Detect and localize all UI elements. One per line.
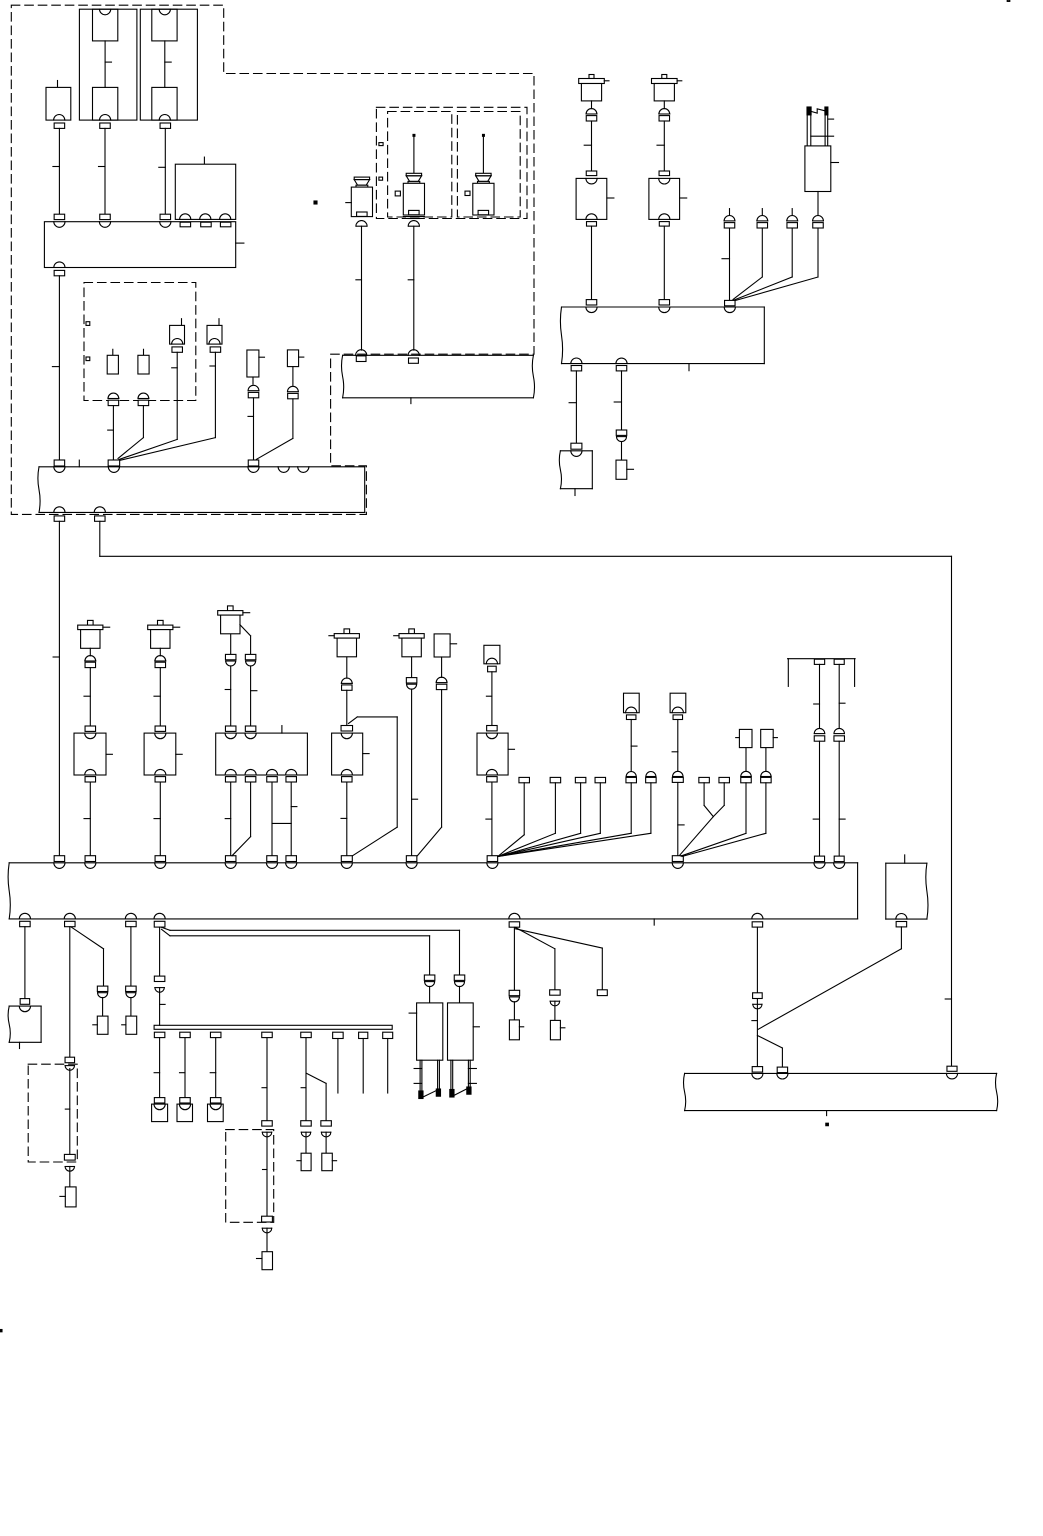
wire D bbox=[678, 783, 684, 856]
p3 wire bbox=[130, 927, 132, 987]
fuse/relay strip box B2 bbox=[38, 460, 365, 512]
SN5 stub+pair bbox=[406, 657, 417, 689]
sensor SN2 bbox=[148, 620, 180, 648]
ignition coil IC2 bbox=[652, 75, 682, 109]
resistor RC16 bbox=[736, 729, 752, 747]
ignition coil IC2 wire 2 bbox=[663, 226, 665, 300]
component CB above fan2 bbox=[670, 693, 686, 771]
p5 wire2 bbox=[513, 1002, 515, 1020]
t5 branch bbox=[307, 1073, 327, 1120]
ignition coil IC1 bbox=[579, 75, 609, 109]
p6 branch bbox=[757, 1036, 782, 1068]
injector INJ2 bbox=[403, 134, 424, 215]
ignition coil IC2 connector pair bbox=[659, 109, 670, 121]
float connector F1 bbox=[724, 209, 735, 228]
SN2 stub+pair bbox=[155, 648, 166, 667]
relay module M2 (dual element) bbox=[140, 9, 197, 120]
pigtail c8 bbox=[498, 777, 530, 856]
dashed injector box 2 bbox=[457, 112, 520, 218]
bracket float b bbox=[834, 728, 845, 741]
wire W8 bbox=[120, 352, 215, 460]
box P1B bbox=[8, 1006, 41, 1048]
SN1-B bottom bbox=[85, 769, 96, 782]
switch S1 bbox=[107, 349, 118, 374]
branch B2 wire bbox=[162, 929, 430, 975]
E3 connector bbox=[896, 922, 907, 927]
resistor RT5 bbox=[297, 1153, 311, 1171]
ECU bottom conn p5 bbox=[509, 922, 520, 927]
terminal mark f bbox=[465, 191, 470, 195]
bracket float a bbox=[814, 728, 825, 741]
wire W11 main feed down bbox=[53, 521, 59, 856]
p5d1 wire bbox=[554, 1001, 556, 1020]
SN3-B conn a bbox=[267, 777, 278, 782]
connector below J1 bbox=[54, 270, 65, 275]
t5 wire2 bbox=[305, 1132, 307, 1153]
p1 wire bbox=[24, 927, 26, 999]
C7 wire bbox=[486, 672, 492, 726]
bracket wire b bbox=[839, 664, 845, 727]
box SN3-B bbox=[216, 726, 308, 775]
p1 connector bbox=[20, 999, 30, 1005]
dashed box DB2 bbox=[226, 1130, 274, 1223]
p4 wire bbox=[159, 927, 161, 976]
connector W15 bbox=[571, 443, 582, 449]
p2b connector pair bbox=[97, 986, 108, 998]
dashed sub-harness boundary bbox=[84, 283, 196, 401]
SN3 tie bbox=[272, 822, 291, 824]
ignition coil IC2 wire bbox=[657, 121, 664, 171]
connector below B2 b bbox=[95, 516, 106, 521]
pigtail c11 bbox=[498, 777, 606, 856]
dashed box DB1 bbox=[28, 1064, 77, 1162]
battery BAT bbox=[805, 107, 839, 215]
wire W4 long feed bbox=[52, 276, 59, 460]
switch S4 bbox=[207, 319, 222, 344]
node dot g bbox=[314, 201, 317, 204]
t2 connector bbox=[180, 1098, 191, 1103]
resistor RT5B bbox=[322, 1153, 337, 1171]
dashed injector box 1 bbox=[388, 112, 452, 218]
pigtail c16 bbox=[681, 771, 751, 856]
bus tap t7 bbox=[359, 1032, 368, 1093]
wire W1 bbox=[53, 128, 60, 214]
connector pair S6 bbox=[288, 386, 299, 398]
box B4 bbox=[559, 451, 592, 496]
wire F4 bbox=[735, 228, 818, 301]
wire F1 bbox=[722, 228, 730, 300]
component C6 bbox=[434, 634, 457, 657]
component U3 bbox=[46, 81, 71, 121]
branch B1 wire bbox=[162, 927, 460, 975]
SN4 wire2 bbox=[341, 782, 347, 856]
wire W13 INJ1 bbox=[356, 226, 362, 350]
shielded module TPA bbox=[409, 1003, 443, 1099]
TP-A wire bbox=[429, 986, 431, 1003]
ignition coil IC1 connector pair bbox=[586, 109, 597, 121]
connector into J1 pin1 bbox=[54, 214, 65, 219]
SN4-B bottom bbox=[341, 769, 352, 782]
box T3B bbox=[208, 1104, 224, 1122]
dashed harness boundary (engine compartment) bbox=[11, 5, 534, 514]
SN3 connector R bbox=[245, 726, 256, 731]
injector driver box B3 bbox=[342, 350, 535, 404]
pigtail c10 bbox=[498, 777, 586, 856]
p2b wire bbox=[102, 998, 104, 1017]
connector pair S1 bbox=[108, 393, 119, 406]
bracket conn b bbox=[834, 659, 844, 664]
connector E2 b1 bbox=[571, 366, 582, 371]
connector below M1 bbox=[100, 123, 111, 128]
ECU bottom conn p3 bbox=[126, 921, 136, 926]
bracket wire a2 bbox=[813, 741, 819, 856]
main ECU box E1 bbox=[8, 863, 858, 925]
connector pair S2 bbox=[138, 393, 149, 406]
ignition coil IC2 connector 3 bbox=[659, 222, 669, 227]
p5 fan diagonal1 bbox=[516, 928, 555, 990]
switch S2 bbox=[138, 349, 149, 374]
TP-B connector pair bbox=[454, 975, 465, 987]
component above c17 bbox=[765, 748, 767, 772]
SN1 ECU connector bbox=[85, 856, 96, 862]
SN3 connector L bbox=[225, 726, 236, 731]
p6b connector bottom bbox=[777, 1067, 787, 1073]
connector E2 t3 bbox=[725, 300, 736, 305]
ECU bottom conn p2 bbox=[65, 921, 76, 926]
p5 fan diagonal2 bbox=[516, 929, 603, 990]
p2 connector2 bbox=[64, 1154, 75, 1171]
arc below INJ2 bbox=[408, 221, 419, 227]
connector below B2 a bbox=[54, 516, 65, 521]
t4 wire3 bbox=[266, 1228, 268, 1252]
SN3-B conn b bbox=[286, 777, 297, 782]
wire W16 bbox=[614, 371, 621, 430]
SN1 wire bbox=[84, 668, 90, 727]
SN3 ECU connector b bbox=[286, 856, 297, 862]
p2 branch diagonal bbox=[71, 927, 104, 986]
bracket ECU conn b bbox=[834, 856, 844, 862]
t5b connector pair bbox=[321, 1121, 332, 1137]
wire W10 bbox=[257, 399, 293, 459]
connector into J1 pin2 bbox=[100, 214, 111, 219]
sensor SN1 bbox=[78, 620, 110, 648]
SN4 stub+pair bbox=[341, 657, 352, 690]
p3 connector pair bbox=[126, 986, 136, 998]
pigtail c15 bbox=[713, 777, 729, 816]
C7 connector bbox=[488, 666, 497, 672]
bracket ECU conn a bbox=[814, 856, 824, 862]
SN3-B conn L bbox=[225, 777, 236, 782]
Y-wire c1415 bbox=[680, 817, 714, 856]
module U4 above junction box bbox=[175, 157, 235, 219]
p4 wire2 bbox=[160, 988, 166, 1026]
injector INJ1 bbox=[351, 177, 372, 217]
E3 diagonal wire bbox=[758, 927, 901, 1029]
t1 connector bbox=[154, 1098, 165, 1103]
ignition coil IC1 wire 2 bbox=[591, 226, 593, 300]
SN2 wire bbox=[154, 668, 160, 727]
connector E2 t2 bbox=[659, 300, 670, 305]
p5d1 connector bbox=[550, 990, 561, 1006]
bracket conn a bbox=[814, 659, 824, 664]
TP-A connector pair bbox=[424, 975, 435, 987]
ECU top conn W11 bbox=[54, 856, 65, 862]
wire F3 bbox=[734, 228, 792, 300]
SN1 stub+pair bbox=[85, 648, 96, 667]
SN4 branch bbox=[349, 717, 398, 856]
connector pair D bbox=[672, 771, 683, 782]
connector B2 pin1 bbox=[54, 460, 65, 466]
ECU connector box E2 bbox=[560, 307, 764, 371]
tick INJ1 bbox=[346, 202, 352, 204]
switch S3 bbox=[170, 319, 185, 344]
float connector F2 bbox=[757, 209, 768, 228]
p3 wire2 bbox=[130, 998, 132, 1017]
t4 wire2 bbox=[263, 1132, 268, 1216]
stray mark top right bbox=[1007, 0, 1010, 1]
B5 dot bbox=[826, 1123, 829, 1126]
SN3 wire R bbox=[251, 666, 257, 726]
p5d2 connector bbox=[597, 990, 607, 996]
SN4 connector bbox=[341, 726, 353, 732]
C6 stub+pair bbox=[436, 657, 447, 690]
bus tap t2 bbox=[180, 1032, 191, 1098]
sensor SN3 bbox=[218, 606, 250, 634]
wire F2 bbox=[733, 228, 762, 299]
wire W5 bbox=[108, 406, 114, 460]
wire W9 bbox=[248, 398, 254, 460]
p6 wire bbox=[752, 927, 758, 1067]
wire W7 bbox=[119, 352, 177, 459]
injector INJ3 bbox=[473, 134, 494, 215]
SN2 wire2 bbox=[154, 782, 160, 856]
t5 connector pair bbox=[301, 1121, 312, 1137]
p2 connector bbox=[65, 1057, 75, 1070]
C7 ECU connector bbox=[487, 856, 498, 862]
resistor RP5D bbox=[550, 1020, 565, 1039]
resistor RT4 bbox=[257, 1252, 273, 1270]
W12 end connector bbox=[947, 1066, 957, 1071]
p2 wire3 bbox=[69, 1167, 71, 1187]
SN3 out L bbox=[225, 635, 236, 666]
ignition coil IC1 connector 2 bbox=[586, 171, 597, 176]
ignition coil IC2 relay box bbox=[649, 178, 687, 219]
terminal mark c bbox=[379, 143, 383, 146]
SN3-B conn R bbox=[245, 777, 256, 782]
float connector F4 bbox=[813, 215, 824, 228]
switch S6 bbox=[287, 350, 303, 386]
pigtail c17 bbox=[682, 771, 771, 856]
SN1 connector bbox=[85, 726, 96, 731]
connector pair S5 bbox=[248, 385, 259, 397]
terminal mark e bbox=[395, 191, 400, 196]
bus tap t1 bbox=[154, 1032, 165, 1098]
bus bar bbox=[154, 1025, 392, 1029]
SN3 wire2b bbox=[291, 782, 297, 856]
pigtail c9 bbox=[498, 777, 561, 856]
component CA above c12 bbox=[624, 693, 640, 771]
t5b wire2 bbox=[325, 1132, 327, 1153]
wire W16b bbox=[621, 442, 623, 461]
ignition coil IC1 connector 3 bbox=[587, 222, 597, 227]
bracket wire a bbox=[814, 664, 820, 727]
resistor RP5 bbox=[509, 1020, 523, 1040]
box T1B bbox=[152, 1104, 168, 1122]
SN2 ECU connector bbox=[155, 856, 166, 862]
p5 connector pair bbox=[509, 990, 520, 1002]
wire W14 INJ2 bbox=[408, 226, 414, 350]
t4 connector pair bbox=[262, 1121, 273, 1137]
terminal mark b bbox=[86, 357, 90, 361]
p5 wire bbox=[513, 927, 515, 990]
wire W15 bbox=[569, 371, 576, 444]
t3 connector bbox=[210, 1098, 221, 1103]
sensor3R join wire bbox=[232, 837, 251, 856]
connector E2 t1 bbox=[586, 300, 597, 305]
connector pair W16 bbox=[616, 430, 627, 442]
SN5 ECU connector bbox=[406, 856, 417, 862]
connector into J1 pin3 bbox=[160, 214, 171, 219]
connector below M2 bbox=[160, 123, 171, 128]
sensor SN5 bbox=[394, 629, 425, 657]
resistor RC17 bbox=[761, 729, 778, 747]
SN3 ECU connector L bbox=[225, 856, 236, 862]
bus tap t5 bbox=[301, 1032, 312, 1121]
SN2 connector bbox=[155, 726, 166, 731]
connector S4 bbox=[210, 347, 221, 352]
stray mark left edge bbox=[0, 1330, 2, 1332]
ignition coil IC1 wire bbox=[584, 121, 591, 171]
terminal mark a bbox=[86, 322, 90, 326]
SN3 out R bbox=[240, 625, 256, 666]
SN2-B bottom bbox=[155, 769, 166, 782]
C7-B bottom bbox=[486, 769, 497, 782]
ignition coil IC2 connector 2 bbox=[659, 171, 670, 176]
box SN2-B bbox=[144, 733, 182, 775]
connector S3 bbox=[172, 347, 183, 352]
SN4 ECU connector bbox=[341, 856, 352, 862]
pigtail c14 bbox=[699, 777, 713, 816]
wire W3 bbox=[159, 128, 166, 214]
bus tap t3 bbox=[210, 1032, 221, 1098]
box T2B bbox=[177, 1104, 193, 1122]
SN3 wire2a bbox=[271, 782, 273, 856]
box SN4-B bbox=[332, 733, 370, 775]
SN4 wire bbox=[346, 690, 348, 725]
connector B2 pin3 bbox=[248, 460, 259, 466]
bracket wire b2 bbox=[839, 741, 845, 856]
pigtail c13 bbox=[498, 772, 656, 857]
SN5 wire bbox=[412, 689, 418, 856]
ground bracket assembly bbox=[788, 659, 856, 687]
C7 wire2 bbox=[486, 782, 492, 856]
ECU bottom conn p4 bbox=[154, 921, 165, 927]
module box E3 bbox=[886, 855, 928, 919]
connector E2 b2 bbox=[616, 366, 627, 371]
SN3 wire L bbox=[225, 666, 231, 726]
switch S5 bbox=[247, 350, 265, 384]
component C7 bbox=[484, 645, 500, 664]
relay module M1 (dual element) bbox=[79, 9, 136, 120]
t4 connector pair2 bbox=[262, 1216, 273, 1233]
bus tap t4 bbox=[262, 1032, 273, 1121]
pigtail c12 bbox=[498, 772, 637, 857]
bus tap t8 bbox=[383, 1032, 393, 1093]
resistor RP2 bbox=[60, 1187, 76, 1207]
TP-B wire bbox=[459, 986, 461, 1003]
wire W2 bbox=[99, 128, 106, 214]
connector B2 pin2 (converge) bbox=[108, 460, 120, 466]
resistor R1 bbox=[616, 460, 634, 479]
C7 connector2 bbox=[487, 726, 498, 731]
junction box J1 bbox=[44, 222, 244, 268]
sensor SN4 bbox=[329, 629, 360, 657]
SN3 wire3L bbox=[225, 782, 231, 856]
p2 wire2 bbox=[65, 1069, 70, 1155]
p6 connector bottom bbox=[752, 1067, 762, 1073]
shielded module TPB bbox=[448, 1003, 480, 1097]
p6 connector pair mid bbox=[753, 993, 763, 1009]
p2 wire bbox=[69, 927, 71, 1058]
SN3 ECU connector a bbox=[267, 856, 278, 862]
ignition coil IC1 relay box bbox=[576, 178, 614, 219]
arc below INJ1 bbox=[356, 221, 367, 227]
wire W12 long bus right bbox=[100, 521, 952, 1066]
box C7-B bbox=[477, 733, 515, 775]
bus tap t6 bbox=[333, 1032, 344, 1093]
terminal mark d bbox=[379, 177, 383, 180]
component above c16 bbox=[745, 748, 747, 772]
connector below U3 bbox=[54, 123, 65, 128]
resistor RP3 bbox=[122, 1016, 137, 1034]
SN1 wire2 bbox=[84, 782, 90, 856]
SN3 wire3R bbox=[250, 782, 252, 836]
C6 wire bbox=[417, 690, 441, 856]
seat lines INJ2 bbox=[403, 217, 424, 219]
dashed injector group boundary bbox=[376, 107, 527, 218]
connector D-ECU bbox=[672, 856, 683, 862]
ECU bottom conn p1 bbox=[20, 921, 31, 926]
wire W6 bbox=[118, 406, 143, 459]
box SN1-B bbox=[74, 733, 112, 775]
float connector F3 bbox=[787, 209, 798, 228]
p4 connector bbox=[154, 976, 165, 992]
bottom module box B5 bbox=[684, 1073, 998, 1115]
ECU bottom conn p6 bbox=[752, 922, 763, 927]
resistor RP2B bbox=[93, 1016, 108, 1034]
